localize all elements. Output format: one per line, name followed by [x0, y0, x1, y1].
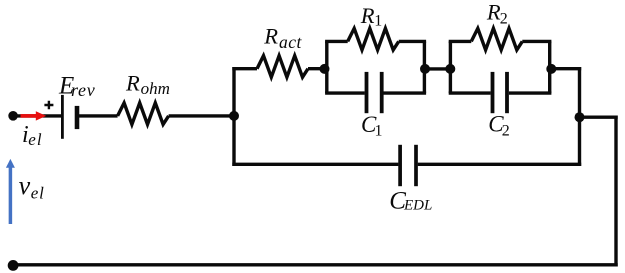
- svg-text:R: R: [125, 70, 140, 95]
- svg-text:1: 1: [375, 123, 383, 140]
- svg-text:rev: rev: [71, 80, 95, 100]
- svg-text:R: R: [263, 24, 278, 49]
- svg-text:el: el: [31, 183, 45, 202]
- svg-text:v: v: [19, 171, 31, 200]
- svg-text:EDL: EDL: [403, 197, 432, 213]
- svg-text:R: R: [360, 3, 375, 28]
- svg-text:R: R: [486, 0, 501, 25]
- svg-text:ohm: ohm: [141, 79, 170, 98]
- svg-text:1: 1: [374, 12, 382, 29]
- svg-text:el: el: [28, 130, 42, 149]
- svg-text:act: act: [279, 32, 303, 52]
- svg-text:2: 2: [500, 10, 508, 27]
- svg-text:2: 2: [502, 123, 510, 140]
